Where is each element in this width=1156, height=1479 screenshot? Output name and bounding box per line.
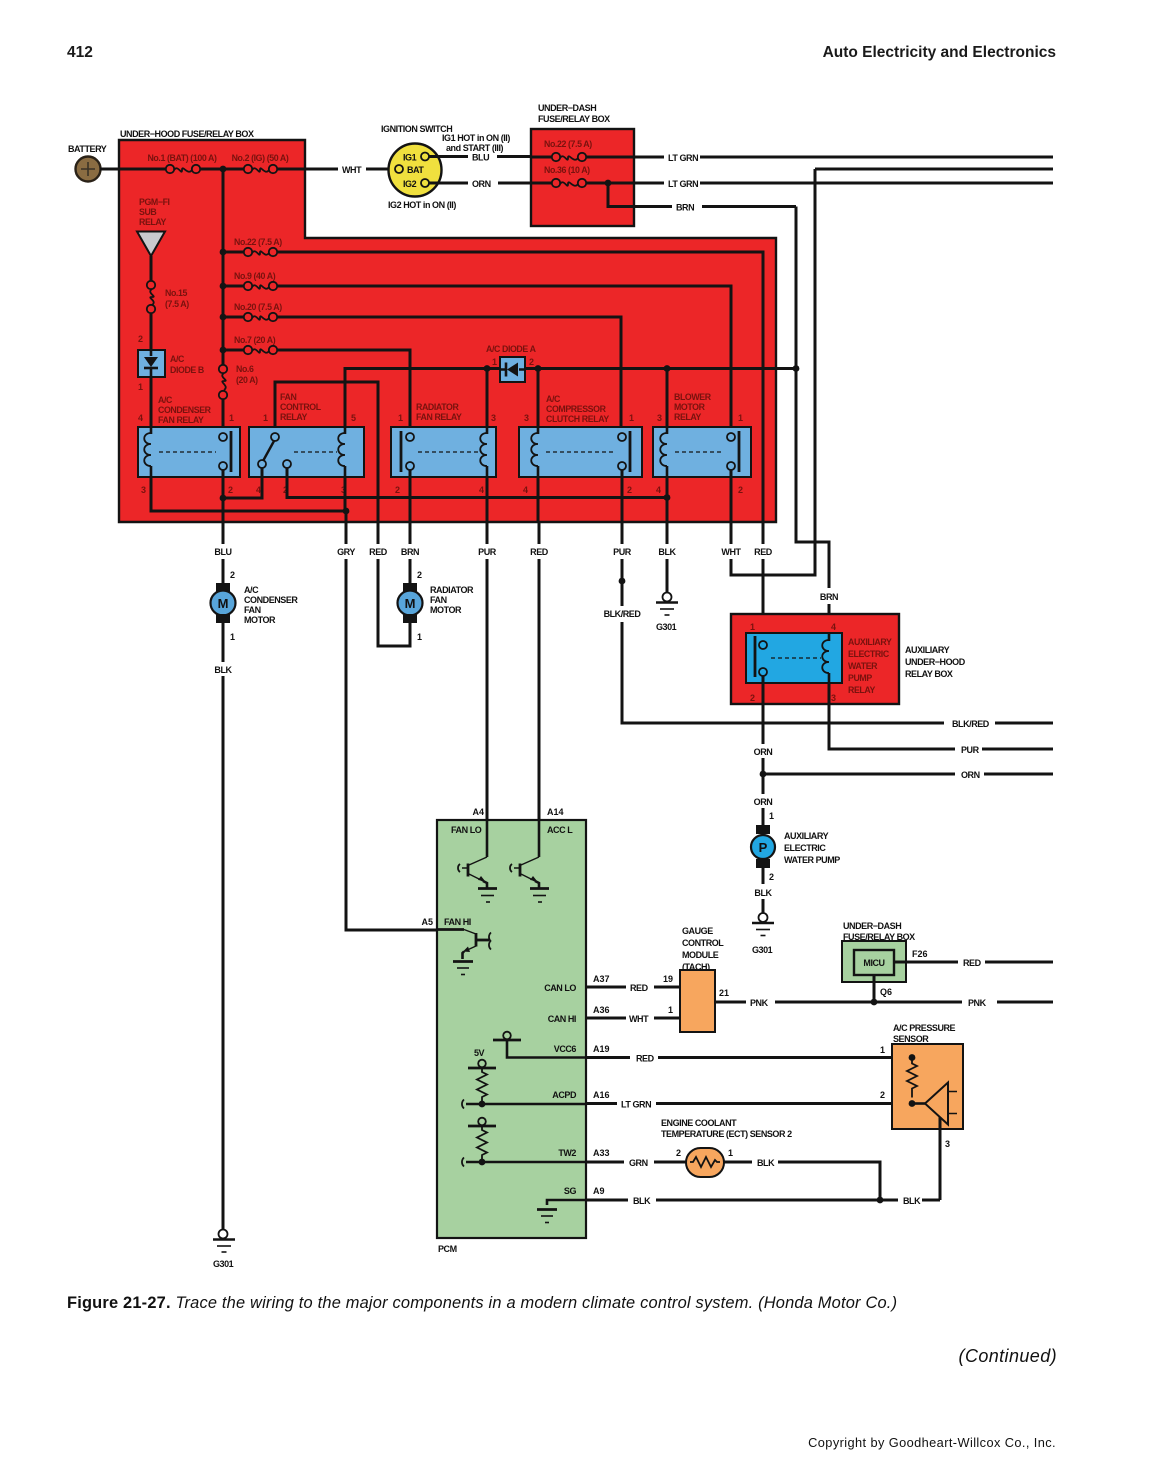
wire battery feed inside box bbox=[119, 168, 166, 171]
svg-text:RELAY BOX: RELAY BOX bbox=[905, 669, 953, 679]
svg-text:GRY: GRY bbox=[337, 547, 355, 557]
svg-text:LT GRN: LT GRN bbox=[621, 1100, 651, 1110]
svg-text:FAN LO: FAN LO bbox=[451, 825, 482, 835]
svg-text:BRN: BRN bbox=[401, 547, 419, 557]
svg-text:FAN RELAY: FAN RELAY bbox=[158, 415, 204, 425]
svg-text:(Continued): (Continued) bbox=[959, 1346, 1057, 1366]
wire fuse2 to WHT to ignition BAT bbox=[277, 168, 395, 171]
wire ORN down to water pump bbox=[762, 774, 765, 825]
ground G301 blower bbox=[656, 593, 678, 633]
transistor FAN LO driver bbox=[458, 820, 497, 902]
svg-text:1: 1 bbox=[398, 413, 403, 423]
svg-text:PNK: PNK bbox=[968, 998, 987, 1008]
svg-text:ORN: ORN bbox=[754, 797, 773, 807]
svg-text:1: 1 bbox=[668, 1005, 673, 1015]
svg-text:M: M bbox=[405, 596, 416, 611]
svg-text:RADIATOR: RADIATOR bbox=[416, 402, 459, 412]
svg-text:RED: RED bbox=[636, 1054, 655, 1064]
svg-text:A37: A37 bbox=[593, 974, 610, 984]
node BLK join at blower coil pin 4 bbox=[664, 494, 671, 501]
fuse No.7 (20 A) bbox=[223, 335, 277, 354]
PCM box bbox=[437, 820, 586, 1254]
svg-text:1: 1 bbox=[230, 632, 235, 642]
wire No.7 row to radiator relay pin 1 bbox=[277, 350, 410, 433]
svg-text:19: 19 bbox=[663, 974, 673, 984]
svg-text:1: 1 bbox=[880, 1045, 885, 1055]
svg-text:AUXILIARY: AUXILIARY bbox=[848, 637, 892, 647]
node pin 1 bbox=[909, 1054, 916, 1061]
fuse No.1 (BAT) (100 A) bbox=[147, 153, 217, 173]
ground G301 left bbox=[213, 1230, 235, 1270]
supply tap VCC6 bbox=[493, 1032, 586, 1058]
svg-text:F26: F26 bbox=[912, 949, 928, 959]
node ACPD junction bbox=[479, 1101, 486, 1108]
svg-text:2: 2 bbox=[228, 485, 233, 495]
svg-text:2: 2 bbox=[417, 570, 422, 580]
node bus No.7 tap bbox=[220, 347, 227, 354]
wire main bus vertical bbox=[222, 169, 225, 365]
wire PGM relay to fuse No.15 bbox=[150, 256, 153, 281]
svg-text:5V: 5V bbox=[474, 1048, 485, 1058]
svg-text:No.20 (7.5 A): No.20 (7.5 A) bbox=[234, 302, 282, 312]
svg-text:SENSOR: SENSOR bbox=[893, 1034, 929, 1044]
svg-text:Q6: Q6 bbox=[880, 987, 892, 997]
svg-text:G301: G301 bbox=[656, 622, 677, 632]
svg-text:PGM−FI: PGM−FI bbox=[139, 197, 170, 207]
motor radiator fan motor bbox=[398, 583, 475, 623]
node blower coil tap on diode row bbox=[664, 365, 671, 372]
svg-text:RADIATOR: RADIATOR bbox=[430, 585, 474, 595]
svg-text:No.22 (7.5 A): No.22 (7.5 A) bbox=[544, 139, 592, 149]
svg-text:1: 1 bbox=[750, 622, 755, 632]
svg-text:1: 1 bbox=[492, 357, 497, 367]
A/C diode A bbox=[486, 344, 537, 382]
svg-text:A9: A9 bbox=[593, 1186, 605, 1196]
wire condenser pin 2 and fan control pin 4 join bbox=[223, 468, 262, 522]
svg-text:BATTERY: BATTERY bbox=[68, 144, 107, 154]
fuse No.22 (7.5 A) bbox=[223, 237, 282, 256]
svg-text:GRN: GRN bbox=[629, 1158, 648, 1168]
ignition switch bbox=[381, 124, 510, 210]
svg-text:FAN RELAY: FAN RELAY bbox=[416, 412, 462, 422]
wire RED VCC6 to pressure sensor pin 1 bbox=[586, 1056, 912, 1059]
wire BLK SG row to right bbox=[586, 1199, 940, 1202]
svg-text:A36: A36 bbox=[593, 1005, 610, 1015]
wire diode A row (fan control pin 5 to BRN node) bbox=[345, 369, 796, 434]
svg-text:BLK: BLK bbox=[754, 888, 772, 898]
wire BLU to condenser fan motor bbox=[222, 522, 225, 583]
node BLK junction ECT bbox=[877, 1197, 884, 1204]
wire RED CAN LO to gauge module bbox=[586, 986, 680, 989]
svg-text:WHT: WHT bbox=[342, 165, 362, 175]
ground SG internal bbox=[537, 1210, 557, 1223]
relay radiator fan relay bbox=[391, 402, 496, 495]
motor auxiliary electric water pump bbox=[751, 825, 840, 868]
svg-text:2: 2 bbox=[750, 693, 755, 703]
battery bbox=[68, 144, 107, 182]
wire water pump to ground (BLK) bbox=[762, 868, 765, 913]
svg-text:A14: A14 bbox=[547, 807, 564, 817]
node bus top junction bbox=[220, 166, 227, 173]
svg-text:VCC6: VCC6 bbox=[554, 1044, 577, 1054]
relay A/C compressor clutch relay bbox=[519, 394, 642, 495]
wire compressor coil pin 4 down (RED) bbox=[537, 477, 540, 522]
resistor TW2 pull-up bbox=[477, 1126, 487, 1162]
svg-text:Auto Electricity and Electroni: Auto Electricity and Electronics bbox=[823, 44, 1056, 61]
svg-text:CAN LO: CAN LO bbox=[544, 983, 576, 993]
svg-text:1: 1 bbox=[629, 413, 634, 423]
svg-text:MOTOR: MOTOR bbox=[674, 402, 706, 412]
svg-text:IG1 HOT in ON (II): IG1 HOT in ON (II) bbox=[442, 133, 510, 143]
svg-text:3: 3 bbox=[831, 693, 836, 703]
svg-text:LT GRN: LT GRN bbox=[668, 153, 698, 163]
node ORN junction bbox=[760, 771, 767, 778]
under-dash fuse/relay box (top) bbox=[531, 103, 634, 226]
wire BRN to radiator fan motor pin 2 bbox=[409, 522, 412, 583]
wire BLK from ECT to junction bbox=[724, 1162, 880, 1200]
svg-text:No.1 (BAT) (100 A): No.1 (BAT) (100 A) bbox=[147, 153, 217, 163]
svg-text:BLU: BLU bbox=[214, 547, 231, 557]
relay blower motor relay bbox=[653, 392, 751, 495]
svg-text:2: 2 bbox=[738, 485, 743, 495]
svg-text:No.15: No.15 bbox=[165, 288, 187, 298]
svg-text:RELAY: RELAY bbox=[139, 217, 167, 227]
svg-text:FAN: FAN bbox=[430, 595, 447, 605]
wire aux relay pin 3 to PUR row bbox=[829, 683, 1053, 749]
svg-text:ORN: ORN bbox=[472, 179, 491, 189]
svg-text:TW2: TW2 bbox=[558, 1148, 576, 1158]
svg-text:ORN: ORN bbox=[961, 770, 980, 780]
svg-text:4: 4 bbox=[479, 485, 484, 495]
svg-text:M: M bbox=[218, 596, 229, 611]
svg-text:2: 2 bbox=[138, 334, 143, 344]
svg-text:A/C: A/C bbox=[170, 354, 185, 364]
resistor ACPD pull-up bbox=[477, 1068, 487, 1104]
wire RED to PCM pin A14 bbox=[538, 522, 541, 820]
svg-text:CLUTCH RELAY: CLUTCH RELAY bbox=[546, 414, 609, 424]
A/C diode B bbox=[138, 350, 204, 377]
ECT sensor 2 bbox=[661, 1118, 792, 1177]
svg-text:BLK: BLK bbox=[903, 1196, 921, 1206]
svg-text:1: 1 bbox=[769, 811, 774, 821]
svg-text:A/C: A/C bbox=[244, 585, 259, 595]
svg-text:DIODE B: DIODE B bbox=[170, 365, 204, 375]
svg-text:UNDER−HOOD: UNDER−HOOD bbox=[905, 657, 966, 667]
A/C pressure sensor bbox=[892, 1023, 963, 1129]
svg-text:PNK: PNK bbox=[750, 998, 769, 1008]
svg-text:CONDENSER: CONDENSER bbox=[158, 405, 212, 415]
svg-text:G301: G301 bbox=[752, 945, 773, 955]
svg-text:UNDER−HOOD FUSE/RELAY BOX: UNDER−HOOD FUSE/RELAY BOX bbox=[120, 129, 254, 139]
svg-text:2: 2 bbox=[529, 357, 534, 367]
svg-text:MOTOR: MOTOR bbox=[430, 605, 462, 615]
wire aux relay pin 2 down (ORN) bbox=[762, 676, 765, 774]
svg-text:PUR: PUR bbox=[478, 547, 497, 557]
svg-text:No.6: No.6 bbox=[236, 364, 254, 374]
svg-text:BRN: BRN bbox=[676, 203, 694, 213]
svg-text:UNDER−DASH: UNDER−DASH bbox=[843, 921, 901, 931]
wire blower pin 2 down (WHT) bbox=[730, 470, 733, 522]
svg-text:SG: SG bbox=[564, 1186, 577, 1196]
svg-text:RED: RED bbox=[530, 547, 549, 557]
svg-text:5: 5 bbox=[351, 413, 356, 423]
wire SG to internal ground bbox=[547, 1200, 586, 1205]
svg-text:A19: A19 bbox=[593, 1044, 610, 1054]
svg-text:UNDER−DASH: UNDER−DASH bbox=[538, 103, 596, 113]
wire IG1 BLU to under-dash box bbox=[429, 155, 531, 158]
svg-text:GAUGE: GAUGE bbox=[682, 926, 713, 936]
svg-text:PUR: PUR bbox=[613, 547, 632, 557]
svg-text:FAN: FAN bbox=[280, 392, 296, 402]
node compressor coil tap on diode row bbox=[535, 365, 542, 372]
fuse No.9 (40 A) bbox=[223, 271, 277, 290]
wire LT GRN row 2 bbox=[634, 182, 1053, 185]
node bus No.20 tap bbox=[220, 314, 227, 321]
wire PNK gauge pin 21 row bbox=[715, 1001, 872, 1004]
wire compressor pin 2 down (PUR) bbox=[621, 470, 624, 522]
svg-text:SUB: SUB bbox=[139, 207, 156, 217]
svg-text:CONDENSER: CONDENSER bbox=[244, 595, 298, 605]
svg-text:RELAY: RELAY bbox=[280, 412, 308, 422]
wire radiator coil pin 3 drop bbox=[486, 369, 489, 434]
wire PNK row to right edge bbox=[874, 1001, 1053, 1004]
svg-text:2: 2 bbox=[676, 1148, 681, 1158]
svg-text:1: 1 bbox=[138, 382, 143, 392]
fuse No.22 (7.5 A) under-dash bbox=[531, 139, 634, 161]
svg-text:ORN: ORN bbox=[754, 747, 773, 757]
amplifier pressure sensor bbox=[912, 1083, 957, 1125]
node radiator coil tap on diode row bbox=[484, 365, 491, 372]
svg-text:A/C: A/C bbox=[546, 394, 561, 404]
under-dash fuse/relay box (MICU) bbox=[842, 921, 915, 982]
svg-text:3: 3 bbox=[524, 413, 529, 423]
wire WHT from blower pin 2 up to right edge bbox=[731, 169, 815, 575]
svg-text:IG2: IG2 bbox=[403, 179, 417, 189]
svg-text:3: 3 bbox=[657, 413, 662, 423]
svg-text:RED: RED bbox=[369, 547, 388, 557]
wire LT GRN ACPD to pressure sensor pin 2 bbox=[586, 1102, 912, 1105]
ground G301 water pump bbox=[752, 913, 774, 955]
svg-text:No.22 (7.5 A): No.22 (7.5 A) bbox=[234, 237, 282, 247]
wire ORN row to right edge bbox=[763, 773, 1053, 776]
svg-text:1: 1 bbox=[728, 1148, 733, 1158]
wire condenser coil pin 3 to fan control coil pin 3 (GRY net) bbox=[151, 477, 346, 511]
svg-text:No.36 (10 A): No.36 (10 A) bbox=[544, 165, 590, 175]
wire diode B to condenser relay pin 4 bbox=[150, 377, 153, 433]
svg-text:RED: RED bbox=[963, 958, 982, 968]
svg-text:BRN: BRN bbox=[820, 592, 838, 602]
svg-text:ACPD: ACPD bbox=[552, 1090, 577, 1100]
svg-text:No.7 (20 A): No.7 (20 A) bbox=[234, 335, 276, 345]
svg-text:4: 4 bbox=[523, 485, 528, 495]
wire battery to box bbox=[100, 168, 119, 171]
svg-text:AUXILIARY: AUXILIARY bbox=[784, 831, 829, 841]
svg-text:(7.5 A): (7.5 A) bbox=[165, 299, 189, 309]
relay A/C condenser fan relay bbox=[138, 395, 240, 495]
wire pressure sensor pin 3 bbox=[939, 1117, 942, 1200]
MICU module bbox=[854, 950, 894, 975]
svg-text:4: 4 bbox=[831, 622, 836, 632]
wire radiator coil pin 4 down (PUR) bbox=[486, 477, 489, 522]
svg-text:4: 4 bbox=[256, 485, 261, 495]
wire LT GRN row 1 bbox=[634, 156, 1053, 159]
svg-text:4: 4 bbox=[138, 413, 143, 423]
wire blower coil pin 3 drop bbox=[666, 369, 669, 434]
svg-text:21: 21 bbox=[719, 988, 729, 998]
svg-text:WHT: WHT bbox=[629, 1014, 649, 1024]
svg-text:ACC L: ACC L bbox=[547, 825, 573, 835]
wire RED from No.22 fuse to aux relay pin 1 bbox=[762, 522, 765, 637]
svg-text:TEMPERATURE (ECT) SENSOR 2: TEMPERATURE (ECT) SENSOR 2 bbox=[661, 1129, 792, 1139]
svg-text:RED: RED bbox=[754, 547, 773, 557]
svg-text:BLK: BLK bbox=[633, 1196, 651, 1206]
svg-text:FUSE/RELAY BOX: FUSE/RELAY BOX bbox=[538, 114, 610, 124]
wire Q6 from MICU down bbox=[873, 975, 876, 1002]
wire PUR from compressor pin 2 bbox=[621, 522, 624, 581]
supply tap 5V bbox=[468, 1048, 496, 1068]
svg-text:RELAY: RELAY bbox=[674, 412, 702, 422]
svg-text:2: 2 bbox=[627, 485, 632, 495]
svg-text:PCM: PCM bbox=[438, 1244, 457, 1254]
motor A/C condenser fan motor bbox=[211, 583, 299, 625]
svg-text:2: 2 bbox=[880, 1090, 885, 1100]
wire fan control pin 1 to RED drop (radiator motor feed) bbox=[275, 382, 378, 522]
wire TW2 row bbox=[462, 1158, 586, 1167]
svg-text:No.2 (IG) (50 A): No.2 (IG) (50 A) bbox=[232, 153, 289, 163]
node pin 2 bbox=[909, 1100, 916, 1107]
svg-text:and START (III): and START (III) bbox=[446, 143, 504, 153]
svg-text:Copyright by Goodheart-Willcox: Copyright by Goodheart-Willcox Co., Inc. bbox=[808, 1435, 1056, 1450]
wire GRY to PCM pin A5 bbox=[346, 522, 437, 930]
wire condenser motor to G301 (BLK) bbox=[222, 623, 225, 1230]
wire fuse1 to junction bbox=[200, 168, 244, 171]
wire fan control pin 2 to blower coil ground net bbox=[287, 468, 667, 498]
svg-text:ELECTRIC: ELECTRIC bbox=[784, 843, 826, 853]
wire GRN TW2 to ECT sensor 2 bbox=[586, 1161, 686, 1164]
wire BRN drop from under-dash box bbox=[608, 183, 796, 207]
svg-text:RED: RED bbox=[630, 983, 649, 993]
wire compressor coil pin 3 drop bbox=[537, 369, 540, 434]
wire radiator pin 2 down (BRN) bbox=[409, 470, 412, 522]
svg-text:412: 412 bbox=[67, 44, 93, 61]
wire GRY down from node bbox=[345, 511, 348, 522]
wire blower coil pin 4 down (BLK) bbox=[666, 477, 669, 522]
svg-text:MICU: MICU bbox=[863, 958, 884, 968]
PGM-FI sub relay bbox=[137, 197, 170, 256]
svg-text:A16: A16 bbox=[593, 1090, 610, 1100]
svg-text:BAT: BAT bbox=[407, 165, 424, 175]
svg-text:BLK: BLK bbox=[658, 547, 676, 557]
svg-text:BLU: BLU bbox=[472, 153, 489, 163]
node BLU join bbox=[220, 495, 227, 502]
transistor FAN HI driver bbox=[437, 930, 491, 975]
under-hood fuse/relay box bbox=[119, 129, 776, 522]
svg-text:CONTROL: CONTROL bbox=[682, 938, 724, 948]
fuse No.36 (10 A) under-dash bbox=[531, 165, 634, 187]
svg-text:RELAY: RELAY bbox=[848, 685, 876, 695]
svg-text:(20 A): (20 A) bbox=[236, 375, 258, 385]
svg-text:CAN HI: CAN HI bbox=[548, 1014, 576, 1024]
fuse No.15 (7.5 A) bbox=[147, 281, 189, 313]
svg-text:WHT: WHT bbox=[721, 547, 741, 557]
node bus No.22 tap bbox=[220, 249, 227, 256]
supply tap TW2 bbox=[468, 1118, 496, 1126]
wire BLK/RED down and right bbox=[622, 581, 1053, 723]
relay auxiliary electric water pump relay bbox=[746, 622, 892, 703]
fuse No.20 (7.5 A) bbox=[223, 302, 282, 321]
svg-text:ENGINE COOLANT: ENGINE COOLANT bbox=[661, 1118, 737, 1128]
svg-text:3: 3 bbox=[491, 413, 496, 423]
svg-text:FAN HI: FAN HI bbox=[444, 917, 471, 927]
wire RED to radiator fan motor pin 1 bbox=[378, 522, 410, 646]
wire IG2 ORN to under-dash box bbox=[429, 182, 531, 185]
resistor pressure sensor bbox=[907, 1058, 917, 1098]
svg-text:Figure 21-27. Trace the wiring: Figure 21-27. Trace the wiring to the ma… bbox=[67, 1294, 897, 1312]
fuse No.2 (IG) (50 A) bbox=[232, 153, 289, 173]
wire No.22 row to RED drop bbox=[277, 252, 763, 522]
svg-text:2: 2 bbox=[769, 872, 774, 882]
fuse No.6 (20 A) vertical on bus bbox=[219, 364, 258, 399]
wire BLK from blower coil to ground bbox=[666, 522, 669, 592]
node PUR to BLK/RED splice bbox=[619, 578, 626, 585]
node TW2 junction bbox=[479, 1159, 486, 1166]
wire No.20 row to compressor clutch relay pin 1 bbox=[277, 317, 621, 433]
svg-text:1: 1 bbox=[263, 413, 268, 423]
svg-text:A/C: A/C bbox=[158, 395, 173, 405]
wire PUR to PCM pin A4 bbox=[486, 522, 489, 820]
svg-text:MODULE: MODULE bbox=[682, 950, 719, 960]
svg-text:IG1: IG1 bbox=[403, 153, 417, 163]
wire bus to condenser relay pin 1 bbox=[222, 399, 225, 433]
svg-text:BLK/RED: BLK/RED bbox=[952, 719, 990, 729]
svg-text:BLK: BLK bbox=[757, 1158, 775, 1168]
svg-text:PUMP: PUMP bbox=[848, 673, 872, 683]
svg-text:1: 1 bbox=[229, 413, 234, 423]
svg-text:No.9 (40 A): No.9 (40 A) bbox=[234, 271, 276, 281]
svg-text:PUR: PUR bbox=[961, 745, 980, 755]
transistor ACC L driver bbox=[510, 820, 549, 902]
svg-text:BLK: BLK bbox=[214, 665, 232, 675]
wire fuse No.15 to diode B bbox=[150, 313, 153, 350]
relay fan control relay bbox=[249, 392, 364, 495]
svg-text:A/C PRESSURE: A/C PRESSURE bbox=[893, 1023, 956, 1033]
svg-text:P: P bbox=[759, 840, 768, 855]
auxiliary under-hood relay box bbox=[731, 614, 966, 704]
svg-text:3: 3 bbox=[141, 485, 146, 495]
wire WHT return row (to right edge) bbox=[815, 168, 1053, 171]
node GRY join bbox=[343, 508, 350, 515]
svg-text:ELECTRIC: ELECTRIC bbox=[848, 649, 890, 659]
svg-text:COMPRESSOR: COMPRESSOR bbox=[546, 404, 607, 414]
svg-text:A5: A5 bbox=[421, 917, 433, 927]
wire WHT CAN HI to gauge module bbox=[586, 1017, 680, 1020]
node Q6 junction bbox=[871, 999, 878, 1006]
wire RED MICU F26 row bbox=[894, 961, 1053, 964]
svg-text:A/C DIODE A: A/C DIODE A bbox=[486, 344, 537, 354]
svg-text:2: 2 bbox=[395, 485, 400, 495]
svg-text:1: 1 bbox=[738, 413, 743, 423]
gauge control module (tach) bbox=[680, 926, 724, 1032]
wire ACPD row bbox=[462, 1100, 586, 1109]
svg-text:1: 1 bbox=[417, 632, 422, 642]
svg-text:4: 4 bbox=[656, 485, 661, 495]
svg-text:A4: A4 bbox=[472, 807, 484, 817]
svg-text:A33: A33 bbox=[593, 1148, 610, 1158]
svg-text:3: 3 bbox=[945, 1139, 950, 1149]
node No.36 output junction bbox=[605, 180, 612, 187]
node bus No.9 tap bbox=[220, 283, 227, 290]
node diode row to BRN wire bbox=[793, 365, 800, 372]
